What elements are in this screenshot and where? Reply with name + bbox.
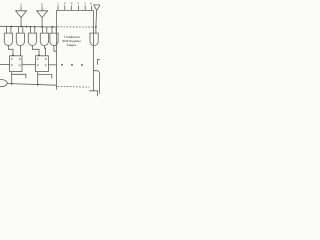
wire input tick H	[91, 6, 93, 11]
junction dot bottom bus 1	[11, 83, 13, 85]
svg-text:R: R	[71, 3, 73, 6]
AND gate G2	[16, 33, 24, 46]
wire gate1 input risers	[7, 27, 11, 34]
AND gate G1	[4, 33, 12, 45]
flip-flop FF1	[10, 56, 22, 72]
wire Q1 to D2	[22, 64, 36, 66]
wire B input tick	[41, 6, 43, 10]
junction dots top bus	[10, 26, 96, 86]
svg-text:B: B	[41, 2, 43, 6]
AND gate G3	[28, 33, 36, 46]
inverter B (down-pointing triangle)	[37, 11, 48, 18]
inverter A (down-pointing triangle)	[16, 11, 27, 18]
junction dot FF2 S	[38, 55, 40, 57]
wire bottom clock bus	[7, 84, 57, 86]
junction dot right riser	[95, 26, 97, 28]
svg-text:D: D	[37, 63, 39, 67]
svg-text:A: A	[20, 2, 22, 6]
wire Q2 to stages box	[48, 64, 56, 66]
svg-text:Q: Q	[19, 63, 21, 67]
junction dot FF1 S	[12, 55, 14, 57]
AND gate G5	[50, 33, 58, 45]
wire G5 output	[54, 46, 57, 52]
svg-text:G: G	[84, 3, 86, 6]
wire U3 output	[95, 10, 98, 33]
wire gate2 input risers	[19, 27, 23, 33]
wire A output	[20, 18, 22, 27]
inverter U3 (top right, cropped)	[94, 5, 100, 10]
svg-text:S: S	[37, 57, 39, 61]
junction dot bottom bus 2	[37, 84, 39, 86]
svg-text:S: S	[11, 57, 13, 61]
wire G3 output to FF2 S	[32, 46, 39, 56]
last stage FF bottom wire	[89, 91, 97, 96]
wire FF2 hop loop	[38, 75, 52, 79]
stages box top edge	[57, 9, 94, 11]
wire input tick G	[84, 6, 86, 11]
wire input tick C	[57, 6, 59, 11]
wire A input tick	[20, 6, 22, 10]
wire input tick R	[71, 6, 73, 11]
wire gate4 input risers	[43, 27, 47, 33]
svg-text:H: H	[90, 3, 92, 6]
wire D input from left	[0, 64, 10, 66]
wire gate5 input risers	[52, 27, 56, 33]
wire dashed clock bus through stages	[58, 85, 90, 88]
labels	[20, 2, 92, 6]
svg-text:Stages: Stages	[67, 43, 77, 47]
last stage FF box (cropped) top	[93, 71, 99, 94]
wire right edge corner at Q out	[97, 59, 100, 64]
wire FF1 hop loop	[12, 74, 26, 78]
AND gate G4	[40, 33, 48, 46]
svg-text:D: D	[11, 63, 13, 67]
wire input tick F	[77, 6, 79, 11]
wire FF2 clock to bottom bus	[37, 72, 39, 85]
clock source ellipse	[0, 80, 7, 87]
svg-text:Q: Q	[45, 63, 47, 67]
wire input tick D	[64, 6, 66, 11]
wire top shift bus	[0, 25, 57, 28]
wire gate3 input risers	[31, 27, 35, 33]
wire dashed shift bus through stages	[57, 26, 93, 28]
flip-flop FF2	[36, 56, 49, 72]
stages box caption	[62, 35, 81, 47]
ellipsis dots in stages box	[61, 64, 63, 66]
AND gate G6	[90, 33, 98, 46]
wire B output	[41, 18, 43, 27]
stages box left edge	[56, 10, 58, 89]
wire G2 output to FF1 R	[19, 46, 21, 56]
svg-text:R: R	[45, 57, 47, 61]
svg-text:C: C	[57, 3, 59, 6]
FF1 pin labels	[11, 57, 47, 67]
stages box right edge	[92, 10, 94, 90]
wire G4 output to FF2 R	[44, 46, 45, 56]
wire FF1 clock to bottom bus	[11, 72, 13, 84]
svg-text:R: R	[19, 57, 21, 61]
svg-text:D: D	[64, 3, 66, 6]
wire G1 output to FF1 S	[8, 46, 13, 56]
